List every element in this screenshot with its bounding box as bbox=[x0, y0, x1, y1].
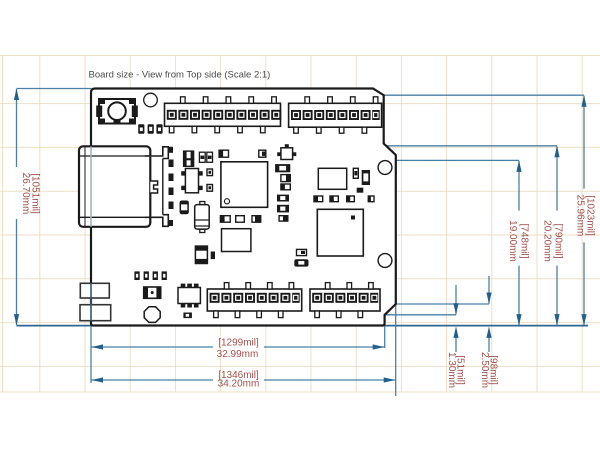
bottom extension x384.7 bbox=[384, 146, 386, 348]
capacitor C7 bbox=[207, 152, 213, 162]
svg-text:20.20mm: 20.20mm bbox=[542, 220, 553, 262]
svg-text:25.96mm: 25.96mm bbox=[575, 195, 586, 237]
mounting hole H1 bbox=[144, 93, 158, 107]
crystal Y1 bbox=[195, 202, 210, 233]
board outline bbox=[91, 89, 396, 326]
dim vertical [790mil] x557 bbox=[556, 146, 558, 210]
arrow 1299 right bbox=[373, 344, 385, 349]
op-amp U1 bbox=[181, 169, 203, 193]
capacitor C4 bbox=[184, 151, 194, 159]
capacitor C21 bbox=[368, 196, 374, 202]
MCU U2 bbox=[221, 162, 268, 208]
bottom extension x91 bbox=[90, 326, 92, 383]
capacitor C2 bbox=[148, 124, 154, 133]
svg-text:32.99mm: 32.99mm bbox=[217, 349, 259, 360]
drawing grid bbox=[0, 56, 600, 393]
resistor R6 bbox=[297, 249, 307, 255]
svg-text:[790mil]: [790mil] bbox=[553, 223, 564, 258]
power pad P2 bbox=[80, 305, 111, 321]
transistor Q2 bbox=[362, 170, 370, 185]
capacitor C17 bbox=[279, 216, 288, 221]
capacitor C3 bbox=[156, 124, 162, 133]
arrow 748 up bbox=[516, 160, 521, 172]
capacitor C6 bbox=[199, 152, 205, 162]
capacitor C5 bbox=[184, 160, 194, 167]
arrow left-dim up bbox=[14, 89, 19, 101]
IC U4 bbox=[318, 168, 346, 189]
label [1051mil] 26.70mm (left, rotated) bbox=[20, 173, 41, 215]
USB connector J3 bbox=[79, 146, 174, 227]
diode D2 bbox=[277, 195, 289, 202]
resistor R2 bbox=[207, 185, 213, 192]
right leader y304 bbox=[396, 303, 489, 305]
dim vertical [748mil] x519 bbox=[518, 161, 520, 211]
power pad P1 bbox=[80, 283, 109, 298]
capacitor C11 bbox=[220, 216, 230, 223]
svg-text:1.30mm: 1.30mm bbox=[446, 352, 457, 388]
mounting hole H3 bbox=[378, 161, 392, 175]
svg-text:[748mil]: [748mil] bbox=[519, 223, 530, 258]
board left edge lower segment bbox=[90, 283, 92, 320]
arrow 1346 left bbox=[92, 377, 104, 382]
capacitor C18 bbox=[314, 196, 323, 202]
pushbutton SW1 bbox=[96, 99, 138, 124]
arrow 98mil up bbox=[486, 326, 491, 338]
right leader y95 bbox=[384, 94, 584, 96]
arrow 51mil down bbox=[453, 303, 458, 315]
fuse F1 bbox=[144, 287, 161, 298]
capacitor C16 bbox=[281, 184, 290, 190]
bottom extension x395.7 bbox=[395, 156, 397, 396]
IC U6 bbox=[178, 284, 200, 308]
dim vertical [98mil] x489 bbox=[488, 276, 490, 304]
IC U3 bbox=[222, 229, 251, 252]
svg-text:Board size - View from Top sid: Board size - View from Top side (Scale 2… bbox=[89, 70, 271, 81]
capacitor C10 bbox=[259, 150, 266, 157]
diode D4 bbox=[294, 259, 308, 266]
resistor R7 array bbox=[134, 271, 167, 280]
transistor Q1 bbox=[277, 144, 296, 159]
mounting hole H2 bbox=[144, 307, 160, 323]
arrow 51mil up bbox=[453, 326, 458, 338]
arrow left-dim down bbox=[14, 314, 19, 326]
label [98mil] 2.50mm bbox=[479, 352, 498, 388]
svg-text:26.70mm: 26.70mm bbox=[20, 173, 31, 215]
arrow 748 down bbox=[516, 314, 521, 326]
label [790mil] 20.20mm bbox=[542, 220, 564, 262]
header J1 digital (top-left, 10 pos) bbox=[165, 97, 282, 133]
diode D1 bbox=[275, 164, 290, 172]
resistor R5 bbox=[357, 188, 364, 193]
arrow 1023 up bbox=[581, 95, 586, 107]
left dim vertical [1051mil] bbox=[16, 89, 18, 167]
capacitor C20 bbox=[347, 196, 355, 202]
left dim leader top bbox=[17, 88, 92, 90]
arrowheads bbox=[14, 89, 587, 383]
capacitor C19 bbox=[330, 196, 338, 202]
arrow 1023 down bbox=[581, 314, 586, 326]
dim line [1346mil] y380 bbox=[92, 379, 214, 381]
arrow 1346 right bbox=[384, 377, 396, 382]
resistor R8 bbox=[183, 313, 192, 319]
arrow 98mil down bbox=[486, 293, 491, 305]
right leader y160.4 bbox=[388, 159, 519, 161]
capacitor C8 bbox=[180, 201, 188, 213]
dim line [1299mil] y347 bbox=[92, 346, 214, 348]
arrow 790 down bbox=[554, 314, 559, 326]
header J5 power (bottom-right, 6 pos) bbox=[310, 283, 380, 318]
svg-text:34.20mm: 34.20mm bbox=[218, 379, 260, 390]
mounting hole H4 bbox=[378, 254, 392, 268]
board left edge visible through USB bbox=[90, 146, 92, 227]
capacitor C13 bbox=[252, 216, 261, 223]
svg-text:[1299mil]: [1299mil] bbox=[218, 338, 259, 349]
header J2 digital (top-right, 8 pos) bbox=[289, 97, 382, 133]
capacitor C12 bbox=[236, 216, 245, 223]
diode D3 bbox=[277, 205, 289, 213]
arrow 790 up bbox=[554, 146, 559, 158]
dim vertical [1023mil] x584 bbox=[583, 96, 585, 189]
right leader y314.8 bbox=[385, 314, 456, 316]
arrow 1299 left bbox=[92, 344, 104, 349]
resistor R1 bbox=[207, 169, 213, 176]
capacitor C14 bbox=[195, 246, 207, 263]
IC U5 bbox=[317, 209, 363, 256]
resistor R3 bbox=[211, 252, 215, 260]
resistor R4 bbox=[353, 168, 358, 178]
svg-text:19.00mm: 19.00mm bbox=[507, 220, 518, 262]
capacitor C9 bbox=[219, 150, 228, 157]
capacitor C15 bbox=[281, 175, 290, 182]
header J4 (bottom-left, 8 pos) bbox=[207, 283, 301, 318]
bottom baseline extension (board bottom edge extended both sides) bbox=[17, 325, 589, 327]
right leader y145.8 bbox=[385, 145, 557, 147]
svg-text:2.50mm: 2.50mm bbox=[479, 352, 490, 388]
label [51mil] 1.30mm bbox=[446, 352, 465, 388]
label [748mil] 19.00mm bbox=[507, 220, 530, 262]
label [1023mil] 25.96mm bbox=[575, 195, 596, 237]
capacitor C1 bbox=[138, 124, 144, 133]
dim vertical [51mil] x456 bbox=[455, 285, 457, 314]
